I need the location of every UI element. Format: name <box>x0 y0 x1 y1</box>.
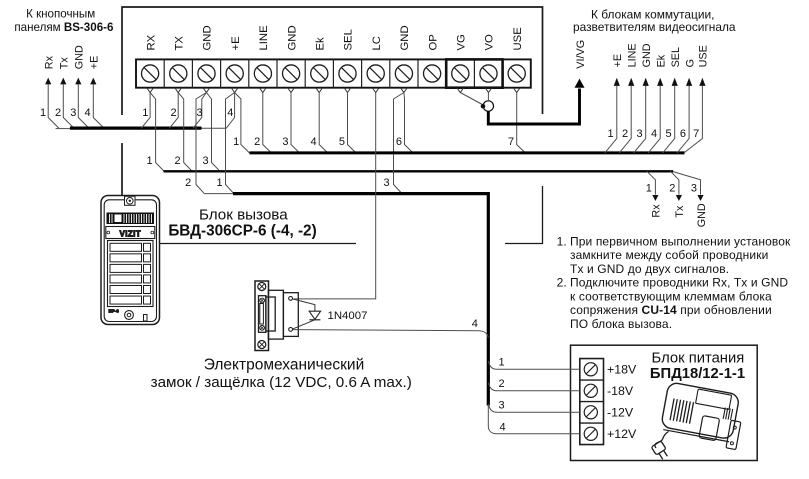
svg-text:Блок вызова: Блок вызова <box>199 207 288 224</box>
svg-text:+E: +E <box>89 56 101 70</box>
svg-text:К кнопочным: К кнопочным <box>26 8 95 21</box>
svg-text:GND: GND <box>202 25 214 50</box>
svg-text:3: 3 <box>203 155 209 167</box>
svg-text:3: 3 <box>282 136 288 148</box>
svg-text:GND: GND <box>641 43 653 67</box>
svg-text:GND: GND <box>399 25 411 50</box>
svg-text:LINE: LINE <box>258 25 270 51</box>
svg-text:1: 1 <box>646 182 652 194</box>
svg-text:-18V: -18V <box>607 384 634 398</box>
svg-text:GND: GND <box>74 45 86 69</box>
svg-text:4: 4 <box>227 107 233 119</box>
svg-text:3: 3 <box>384 177 390 189</box>
svg-text:2: 2 <box>622 128 628 140</box>
svg-text:LINE: LINE <box>627 43 639 67</box>
svg-text:G: G <box>684 59 696 67</box>
svg-text:БВД-306СР-6 (-4, -2): БВД-306СР-6 (-4, -2) <box>168 222 316 239</box>
svg-text:SEL: SEL <box>343 29 355 50</box>
svg-text:5: 5 <box>339 136 345 148</box>
svg-text:Rx: Rx <box>44 55 56 69</box>
svg-text:БР-6: БР-6 <box>109 309 120 314</box>
svg-text:4: 4 <box>472 318 478 330</box>
svg-text:1.: 1. <box>557 234 567 248</box>
svg-text:1: 1 <box>142 107 148 119</box>
svg-text:4: 4 <box>651 128 657 140</box>
svg-text:1: 1 <box>233 136 239 148</box>
svg-text:6: 6 <box>396 136 402 148</box>
svg-text:3: 3 <box>691 182 697 194</box>
svg-text:+E: +E <box>230 36 242 51</box>
svg-text:Подключите проводники Rx, Tx и: Подключите проводники Rx, Tx и GND <box>570 276 788 290</box>
svg-text:разветвителям видеосигнала: разветвителям видеосигнала <box>573 20 736 34</box>
svg-text:замок / защёлка (12 VDC, 0.6 A: замок / защёлка (12 VDC, 0.6 A max.) <box>151 374 412 391</box>
svg-text:2: 2 <box>254 136 260 148</box>
svg-text:Ek: Ek <box>656 54 668 67</box>
svg-text:USE: USE <box>512 27 524 51</box>
svg-text:Rx: Rx <box>651 204 663 218</box>
svg-text:7: 7 <box>693 128 699 140</box>
svg-text:GND: GND <box>286 25 298 50</box>
svg-text:1: 1 <box>216 177 222 189</box>
svg-text:2: 2 <box>175 155 181 167</box>
svg-text:2: 2 <box>669 182 675 194</box>
svg-text:Ek: Ek <box>315 37 327 51</box>
svg-text:1: 1 <box>147 155 153 167</box>
svg-text:3: 3 <box>70 107 76 119</box>
svg-text:1: 1 <box>40 107 46 119</box>
svg-text:Электромеханический: Электромеханический <box>204 357 364 374</box>
svg-text:+E: +E <box>612 54 624 68</box>
svg-text:LC: LC <box>371 36 383 50</box>
svg-text:замкните между собой проводник: замкните между собой проводники <box>570 248 768 262</box>
svg-text:Tx: Tx <box>59 57 71 70</box>
svg-text:ПО блока вызова.: ПО блока вызова. <box>570 317 672 331</box>
svg-text:USE: USE <box>698 45 710 67</box>
svg-text:сопряжения CU-14 при обновлени: сопряжения CU-14 при обновлении <box>570 303 772 317</box>
svg-text:7: 7 <box>508 136 514 148</box>
svg-text:4: 4 <box>311 136 317 148</box>
svg-text:4: 4 <box>499 422 505 434</box>
svg-text:VG: VG <box>456 34 468 50</box>
svg-text:к соответствующим клеммам блок: к соответствующим клеммам блока <box>570 289 772 303</box>
svg-text:1: 1 <box>608 128 614 140</box>
svg-text:2: 2 <box>185 177 191 189</box>
svg-text:2: 2 <box>170 107 176 119</box>
svg-text:5: 5 <box>665 128 671 140</box>
svg-text:3: 3 <box>498 400 504 412</box>
svg-text:Tx: Tx <box>674 205 686 218</box>
svg-text:+12V: +12V <box>607 427 637 441</box>
svg-text:-12V: -12V <box>607 406 634 420</box>
svg-text:2.: 2. <box>557 276 567 290</box>
svg-text:SEL: SEL <box>670 47 682 67</box>
svg-text:6: 6 <box>680 128 686 140</box>
svg-text:1: 1 <box>498 357 504 369</box>
svg-text:VIZIT: VIZIT <box>120 229 142 238</box>
svg-text:+18V: +18V <box>607 363 637 377</box>
svg-text:3: 3 <box>636 128 642 140</box>
svg-text:OP: OP <box>427 34 439 50</box>
svg-text:Tx и GND до двух сигналов.: Tx и GND до двух сигналов. <box>570 262 729 276</box>
svg-text:TX: TX <box>174 36 186 51</box>
svg-text:панелям BS-306-6: панелям BS-306-6 <box>14 21 114 34</box>
svg-text:VI/VG: VI/VG <box>575 40 587 69</box>
svg-text:GND: GND <box>696 203 708 227</box>
svg-text:RX: RX <box>145 34 157 50</box>
svg-text:При первичном выполнении устан: При первичном выполнении установок <box>570 234 791 248</box>
svg-text:4: 4 <box>84 107 90 119</box>
svg-text:2: 2 <box>55 107 61 119</box>
svg-text:БПД18/12-1-1: БПД18/12-1-1 <box>650 366 745 382</box>
svg-text:2: 2 <box>498 378 504 390</box>
svg-text:Блок питания: Блок питания <box>652 351 745 367</box>
svg-text:1N4007: 1N4007 <box>328 310 368 322</box>
svg-text:3: 3 <box>197 107 203 119</box>
svg-text:VO: VO <box>484 34 496 51</box>
